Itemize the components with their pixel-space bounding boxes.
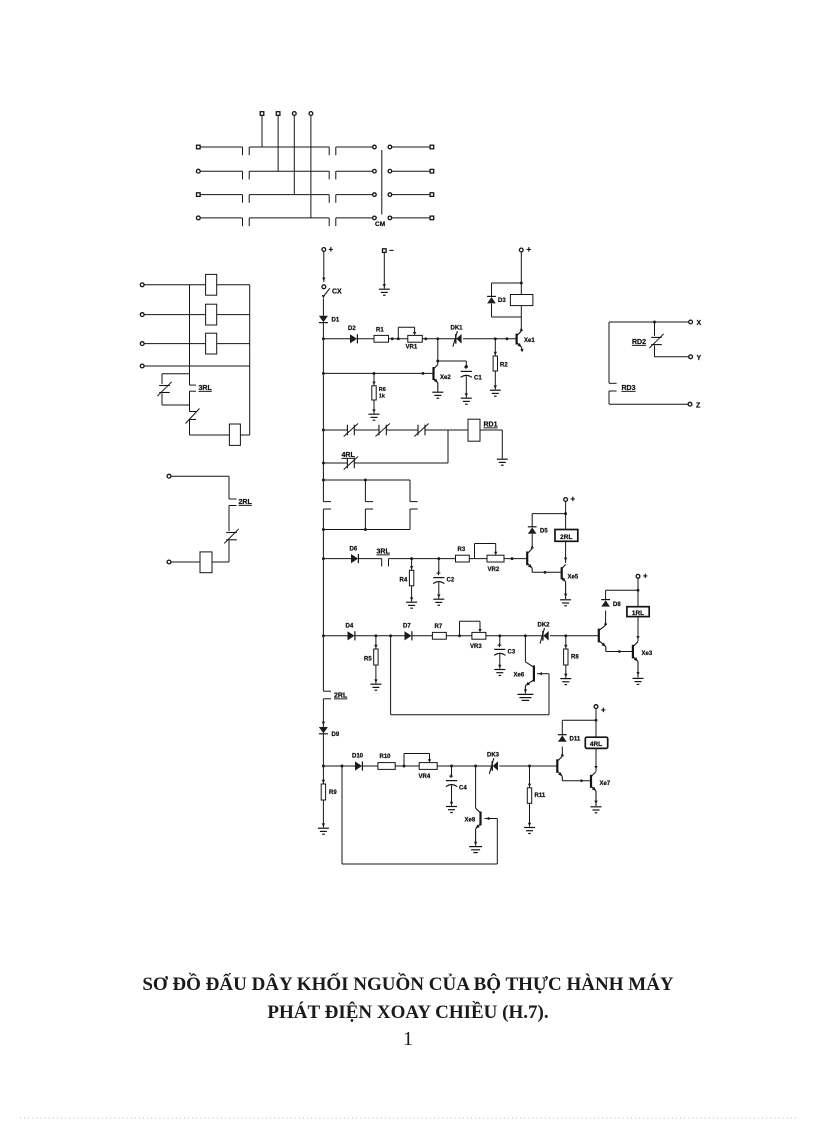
- svg-text:RD2: RD2: [632, 339, 646, 346]
- wire row 2 middle segment: [249, 171, 329, 179]
- svg-text:Xe3: Xe3: [642, 651, 653, 657]
- relay coil 2RL: [200, 552, 212, 573]
- ground Xe6: [517, 693, 533, 695]
- svg-text:1RL: 1RL: [632, 610, 644, 617]
- thyristor DK3: [491, 761, 493, 771]
- diode D11: [558, 734, 567, 736]
- svg-text:DK2: DK2: [538, 623, 551, 629]
- top feed terminal 4: [309, 112, 313, 116]
- svg-text:D6: D6: [350, 547, 358, 553]
- ground R6: [369, 413, 380, 415]
- svg-text:−: −: [389, 246, 394, 255]
- svg-text:Xe5: Xe5: [568, 575, 579, 581]
- svg-text:R8: R8: [571, 655, 579, 661]
- transistor Xe3: [633, 642, 640, 678]
- svg-text:+: +: [571, 495, 576, 504]
- svg-text:+: +: [329, 245, 334, 254]
- left bus of fuse block: [189, 285, 191, 385]
- ground Xe2: [432, 391, 443, 393]
- potentiometer VR1: [398, 327, 422, 342]
- wire driver collector to D8: [604, 611, 607, 626]
- transistor Xe8: [474, 808, 481, 846]
- diode D10: [355, 761, 362, 770]
- 2RL circuit lower terminal: [167, 560, 171, 564]
- resistor R3: [456, 555, 470, 562]
- wire X to RD2 contact: [654, 322, 656, 336]
- transistor Xe2: [434, 365, 438, 392]
- contactor row 3 right terminal: [430, 193, 434, 197]
- wire top feed drop 3: [293, 115, 295, 194]
- diode D1: [319, 316, 328, 322]
- resistor R2 branch: [493, 339, 497, 390]
- wire ladder bottom: [323, 528, 410, 531]
- transistor Xe6: [524, 662, 534, 694]
- svg-text:R7: R7: [435, 624, 443, 630]
- fuse F3: [206, 333, 217, 354]
- wire D8 to +: [606, 589, 640, 600]
- svg-text:Xe7: Xe7: [600, 781, 611, 787]
- diode D9: [319, 722, 328, 734]
- capacitor C2 branch: [433, 559, 444, 599]
- svg-text:CM: CM: [375, 221, 385, 228]
- svg-text:3RL: 3RL: [199, 385, 213, 392]
- ground C2: [433, 598, 444, 600]
- svg-text:4RL: 4RL: [590, 741, 602, 748]
- resistor R1: [374, 335, 389, 342]
- capacitor C1: [461, 362, 472, 397]
- contact lower on center vertical: [186, 409, 200, 424]
- svg-text:C4: C4: [459, 786, 467, 792]
- svg-text:D1: D1: [332, 318, 340, 324]
- footer dotted rule: [20, 1117, 797, 1119]
- wire driver collector to D5: [531, 534, 534, 549]
- svg-text:D2: D2: [348, 326, 356, 332]
- wire relay flyback branch top: [492, 283, 522, 296]
- svg-text:X: X: [697, 320, 702, 327]
- diode D3: [487, 295, 496, 297]
- wire row 2 right segment: [392, 170, 430, 172]
- page number: [0, 1028, 816, 1051]
- ground R11: [524, 827, 535, 829]
- transistor Xe1: [517, 331, 524, 352]
- ground R5: [370, 683, 381, 685]
- terminal +V 2RL: [564, 495, 576, 504]
- wire Xe2 collector: [436, 339, 439, 365]
- terminal +V main: [322, 245, 334, 254]
- main left bus middle: [322, 509, 331, 691]
- svg-text:2RL: 2RL: [239, 499, 253, 506]
- wire 1RL coil to Xe3 collector: [636, 617, 639, 642]
- wire fuse block row 3: [144, 343, 189, 345]
- svg-text:R9: R9: [329, 790, 337, 796]
- wire row 3 third segment: [336, 195, 373, 203]
- contactor row 3 pole contact circles: [373, 193, 392, 197]
- wire row4 feedback loop: [342, 766, 497, 864]
- wire + to 1RL coil: [637, 578, 639, 607]
- svg-text:VR4: VR4: [419, 774, 431, 780]
- wire DK1 to Xe1 base: [463, 337, 517, 340]
- contact pair 3 top row: [417, 425, 419, 436]
- contactor CM actuator bar: [381, 150, 383, 215]
- wire fuse row 3 to fuse: [190, 343, 206, 345]
- svg-text:C2: C2: [447, 578, 455, 584]
- wire DK2 to Xe3 base: [550, 634, 599, 637]
- wire fuse row 2 to fuse: [190, 314, 206, 316]
- svg-text:RD1: RD1: [484, 422, 498, 429]
- wire row 1 right segment: [392, 146, 430, 148]
- 2RL circuit upper terminal: [167, 474, 171, 478]
- transistor Xe3 driver: [599, 625, 606, 651]
- wire Xe1 collector: [520, 317, 523, 331]
- wire fuse row 4 to right bus: [190, 365, 250, 367]
- ground Xe8: [469, 846, 482, 848]
- contactor row 2 right terminal: [430, 169, 434, 173]
- svg-text:C1: C1: [474, 376, 482, 382]
- svg-text:1k: 1k: [379, 394, 386, 400]
- thyristor DK1: [455, 334, 457, 344]
- wire VR4 to DK3: [437, 765, 492, 768]
- contactor row 1 left terminal: [197, 145, 201, 149]
- wire driver emitter to Xe3 base: [606, 650, 633, 653]
- ground R8: [560, 678, 571, 680]
- svg-text:Z: Z: [696, 403, 701, 410]
- wire row 1 left segment: [200, 147, 242, 155]
- wire row1 rail left: [323, 338, 350, 340]
- wire D1 to rail junction: [322, 323, 325, 340]
- resistor R8 branch: [564, 636, 568, 678]
- wire X row: [609, 321, 689, 324]
- svg-text:+: +: [643, 572, 648, 581]
- transistor Xe7: [591, 772, 598, 806]
- diode D2: [350, 334, 357, 343]
- svg-text:R10: R10: [380, 754, 392, 760]
- switch CX: [322, 285, 330, 299]
- wire coil to right bus: [240, 434, 249, 436]
- svg-text:2RL: 2RL: [334, 693, 348, 700]
- wire fuse row 1 to fuse: [190, 284, 206, 286]
- contact pair 1 top row: [346, 425, 348, 436]
- fuse block input terminal 2: [140, 313, 144, 317]
- wire after 3RL contact: [389, 557, 456, 566]
- wire row 3 middle segment: [249, 195, 329, 203]
- ground C3: [494, 669, 505, 671]
- wire + to 4RL coil: [595, 709, 597, 738]
- potentiometer VR4: [404, 754, 437, 770]
- svg-text:VR2: VR2: [488, 567, 500, 573]
- ground Xe5: [560, 599, 571, 601]
- wire row3 feedback loop: [391, 636, 549, 715]
- svg-text:D3: D3: [498, 298, 506, 304]
- wire Xe8 collector: [475, 766, 477, 808]
- wire row 4 middle segment: [249, 218, 329, 226]
- resistor R4 branch: [409, 559, 413, 602]
- wire fuse block row 2: [144, 314, 189, 316]
- terminal Y: [689, 355, 702, 362]
- svg-text:Xe1: Xe1: [524, 338, 535, 344]
- wire 2RL to coil: [212, 541, 229, 563]
- resistor R7: [432, 632, 446, 639]
- ground Xe3: [633, 677, 644, 679]
- ground R4: [406, 601, 417, 603]
- wire coil to lower terminal: [171, 561, 200, 563]
- svg-text:C3: C3: [508, 650, 516, 656]
- svg-text:+: +: [527, 245, 532, 254]
- potentiometer VR3: [460, 621, 486, 639]
- svg-text:D4: D4: [346, 624, 354, 630]
- wire 4RL top row: [323, 429, 468, 431]
- label R6 1k: [379, 387, 386, 400]
- contactor row 1 pole contact circles: [373, 145, 392, 149]
- svg-text:RD3: RD3: [622, 385, 636, 392]
- wire 3RL bypass loop top: [162, 374, 190, 384]
- wire center vertical mid: [189, 391, 191, 411]
- wire R7 to VR3: [446, 634, 472, 637]
- wire driver emitter to Xe7 base: [562, 779, 591, 782]
- contactor row 3 left terminal: [197, 193, 201, 197]
- svg-text:D8: D8: [613, 602, 621, 608]
- wire + to switch: [322, 251, 325, 282]
- wire D2 to R1: [358, 338, 374, 340]
- contact pair 2 top row: [378, 425, 380, 436]
- wire row 2 third segment: [336, 171, 373, 179]
- wire R1 to VR1: [389, 337, 408, 340]
- main left bus lower: [323, 699, 331, 727]
- terminal X: [689, 320, 702, 327]
- terminal +V 1RL: [636, 572, 648, 581]
- terminal Z: [688, 402, 701, 409]
- svg-text:Y: Y: [697, 355, 702, 362]
- wire VR1 to DK1: [422, 337, 456, 340]
- svg-text:R5: R5: [364, 657, 372, 663]
- wire + to 2RL coil: [565, 501, 567, 529]
- svg-text:+: +: [436, 569, 441, 578]
- wire RD1 to ground: [480, 430, 502, 459]
- wire row 3 left segment: [200, 195, 242, 203]
- svg-text:R3: R3: [458, 547, 466, 553]
- svg-text:2RL: 2RL: [560, 534, 572, 541]
- wire fuse block row 1: [144, 284, 189, 286]
- svg-text:R11: R11: [535, 793, 546, 799]
- wire R10 to VR4: [395, 765, 419, 768]
- wire row 2 left segment: [200, 171, 242, 179]
- svg-text:DK3: DK3: [487, 753, 500, 759]
- svg-text:R2: R2: [500, 363, 508, 369]
- wire 2RL coil to Xe5 collector: [564, 541, 567, 563]
- wire row 3 right segment: [392, 194, 430, 196]
- wire Xe6 collector: [524, 636, 526, 662]
- wire D10 to R10: [363, 765, 378, 767]
- diode D6: [351, 554, 358, 563]
- wire - to ground: [383, 252, 386, 288]
- wire fuse row 2 to right bus: [217, 314, 250, 316]
- wire D7 to R7: [412, 635, 432, 637]
- contactor row 2 left terminal: [196, 169, 200, 173]
- wire fuse row 1 to right bus: [217, 284, 250, 286]
- svg-text:R4: R4: [400, 578, 408, 584]
- fuse F2: [206, 304, 217, 325]
- resistor R6 branch: [372, 373, 376, 413]
- svg-text:DK1: DK1: [451, 326, 464, 332]
- svg-text:D5: D5: [540, 529, 548, 535]
- terminal -V: [383, 246, 395, 255]
- svg-text:+: +: [601, 706, 606, 715]
- wire D9 to row4: [322, 734, 325, 767]
- svg-text:VR3: VR3: [470, 644, 482, 650]
- wire row4 left: [323, 765, 355, 768]
- fuse F1: [206, 274, 217, 295]
- wire row3 left: [323, 635, 347, 637]
- wire ladder top: [323, 479, 410, 482]
- fuse block input terminal 1: [140, 283, 144, 287]
- contact 2RL: [226, 532, 237, 534]
- ladder right vertical with contact: [410, 480, 418, 530]
- diode D7: [405, 631, 412, 640]
- svg-text:+: +: [449, 772, 454, 781]
- svg-text:+: +: [497, 640, 502, 649]
- wire row 1 third segment: [336, 147, 373, 155]
- ladder middle vertical with contact: [365, 480, 373, 530]
- ground C1: [461, 397, 472, 399]
- svg-text:VR1: VR1: [406, 345, 418, 351]
- wire row 4 right segment: [392, 217, 430, 219]
- relay coil 4RL box: [585, 737, 607, 748]
- top feed terminal 2: [276, 112, 280, 116]
- transistor Xe7 driver: [557, 756, 562, 780]
- wire 4RL coil to Xe7 collector: [594, 748, 597, 771]
- resistor R11 branch: [527, 766, 531, 827]
- ground Xe7: [591, 806, 602, 808]
- wire center vertical to coil: [190, 420, 230, 436]
- thyristor DK2: [542, 631, 544, 641]
- wire row1 feedback rail: [323, 372, 433, 375]
- resistor R5 branch: [374, 636, 378, 684]
- ground (negative terminal): [379, 288, 390, 290]
- wire fuse block row 4: [144, 365, 189, 367]
- diode D5: [528, 526, 537, 528]
- ground RD1: [497, 458, 508, 460]
- contact 3RL auxiliary (left loop): [159, 385, 170, 387]
- svg-text:R6: R6: [379, 387, 386, 393]
- contact 3RL on center vertical: [190, 385, 197, 391]
- wire row 1 middle segment: [249, 147, 329, 155]
- svg-text:D10: D10: [352, 754, 364, 760]
- top feed terminal 1: [260, 112, 264, 116]
- wire top feed drop 1: [261, 115, 263, 147]
- main left bus upper: [322, 339, 331, 502]
- svg-text:4RL: 4RL: [342, 452, 356, 459]
- wire D11 to +: [562, 719, 597, 735]
- wire row 4 left segment: [200, 218, 242, 226]
- contactor row 4 right terminal: [430, 216, 434, 220]
- wire Xe2 collector to C1: [438, 361, 468, 368]
- svg-text:D7: D7: [403, 624, 411, 630]
- wire fuse row 3 to right bus: [217, 343, 250, 345]
- relay RD1 coil: [468, 419, 480, 441]
- wire 4RL bottom row: [323, 462, 448, 464]
- svg-text:3RL: 3RL: [377, 549, 391, 556]
- relay coil (row1): [510, 295, 533, 306]
- relay coil (left block): [229, 424, 240, 445]
- svg-text:D9: D9: [332, 732, 340, 738]
- resistor R10: [378, 763, 395, 770]
- terminal +V relay RL: [519, 245, 531, 254]
- ground R9: [318, 827, 329, 829]
- top feed terminal 3: [292, 112, 296, 116]
- svg-text:Xe6: Xe6: [514, 673, 525, 679]
- wire RD2 to Y: [655, 345, 689, 357]
- wire 2RL below gap: [229, 506, 237, 532]
- potentiometer VR2: [475, 544, 505, 563]
- wire 4RL row join vertical: [447, 430, 449, 463]
- svg-text:Xe8: Xe8: [465, 818, 476, 824]
- contactor row 1 right terminal: [430, 145, 434, 149]
- wire VR3 to DK2: [486, 634, 543, 637]
- wire top feed drop 4: [310, 115, 312, 217]
- wire 2RL top: [171, 476, 237, 499]
- wire switch to D1: [322, 299, 324, 316]
- contactor row 4 left terminal: [196, 216, 200, 220]
- wire DK3 to Xe7 base: [499, 765, 557, 768]
- svg-text:Xe2: Xe2: [440, 375, 451, 381]
- fuse block input terminal 4: [140, 364, 144, 368]
- transistor Xe5: [561, 564, 567, 599]
- wire RD3 to Z: [609, 391, 688, 404]
- wire + to relay coil: [520, 252, 523, 295]
- wire R3 to VR2: [469, 558, 487, 560]
- wire 3RL bypass loop bottom: [162, 394, 190, 406]
- wire D4 to D7: [355, 634, 404, 637]
- resistor R9 branch: [321, 766, 325, 828]
- fuse block input terminal 3: [140, 342, 144, 346]
- wire row 4 third segment: [336, 218, 373, 226]
- ground C4: [446, 806, 457, 808]
- wire D5 top to +: [532, 512, 567, 527]
- wire driver collector to D11: [561, 747, 564, 757]
- contactor row 2 pole contact circles: [373, 169, 392, 173]
- wire row2 left: [323, 558, 352, 560]
- svg-text:+: +: [464, 362, 469, 371]
- ground R2: [490, 389, 501, 391]
- contact RD2: [651, 336, 662, 338]
- right bus of fuse block: [249, 285, 251, 435]
- svg-text:D11: D11: [570, 737, 581, 743]
- capacitor C4 branch: [446, 766, 457, 806]
- relay coil 2RL box: [555, 530, 578, 542]
- wire top feed drop 2: [277, 115, 279, 171]
- svg-text:CX: CX: [332, 289, 342, 296]
- wire driver emitter to Xe5 base: [532, 571, 562, 574]
- wire flyback bottom: [492, 304, 522, 317]
- wire D6 to 3RL contact: [359, 559, 382, 567]
- diode D8: [601, 599, 610, 601]
- title caption: [0, 971, 816, 1026]
- svg-text:R1: R1: [376, 328, 384, 334]
- wire left leg to RD3 contact: [609, 322, 617, 383]
- contact 4RL bottom row: [346, 458, 348, 469]
- diode D4: [348, 631, 355, 640]
- transistor Xe4 (driver): [527, 549, 532, 573]
- contactor row 4 pole contact circles: [373, 216, 392, 220]
- terminal +V 4RL: [594, 705, 606, 715]
- relay coil 1RL box: [627, 607, 649, 617]
- wire VR2 to Xe5 base: [504, 557, 527, 560]
- capacitor C3 branch: [494, 636, 505, 669]
